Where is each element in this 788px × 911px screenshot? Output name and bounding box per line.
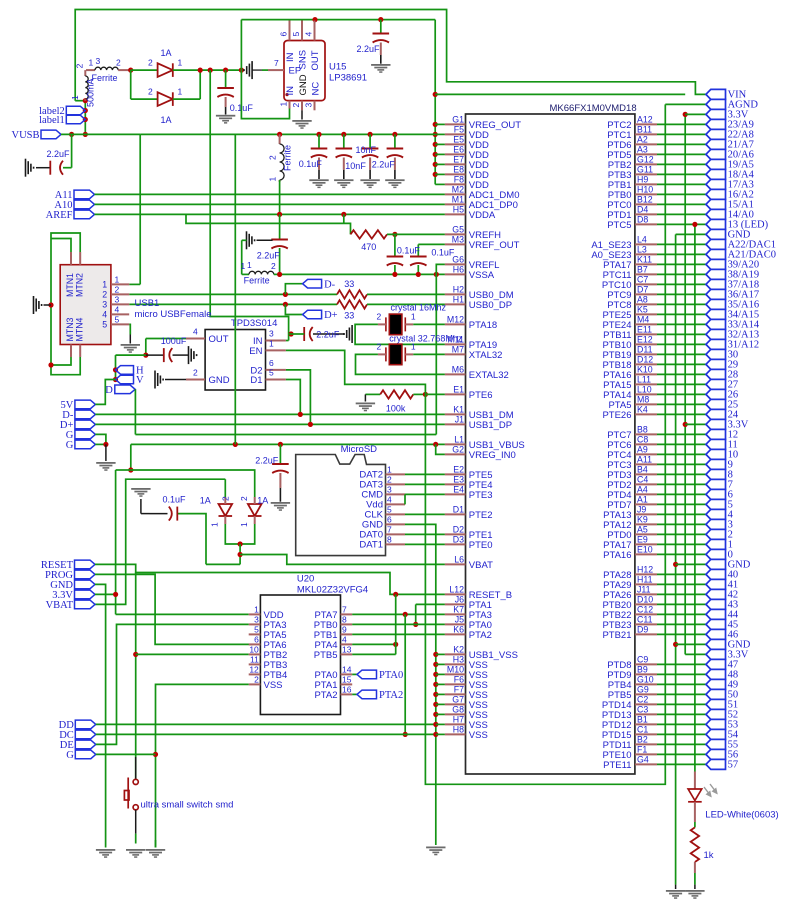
svg-text:U20: U20 xyxy=(297,574,314,585)
svg-text:B8: B8 xyxy=(637,425,648,435)
svg-text:OUT: OUT xyxy=(310,50,321,70)
svg-text:IN: IN xyxy=(285,52,296,62)
junction G flag tie xyxy=(153,752,158,757)
junction 3.3V pad xyxy=(113,592,118,597)
svg-text:G7: G7 xyxy=(452,695,464,705)
wire GND rail right xyxy=(675,234,677,884)
flag header 51 xyxy=(706,699,726,709)
pin H10 PTB0 of U1 xyxy=(635,193,657,195)
pin G8 VSS of U1 xyxy=(445,713,466,715)
junction D- tap xyxy=(283,292,288,297)
wire PTA17 to header xyxy=(657,263,706,265)
junction VUSB cap tap xyxy=(69,132,74,137)
junction USB1_DM xyxy=(298,412,303,417)
flag header 14/A0 xyxy=(706,209,726,219)
wire VUSB to VIN staircase xyxy=(75,10,706,101)
svg-text:H11: H11 xyxy=(637,575,653,585)
wire 100uF right lead xyxy=(173,354,189,356)
wire PTB1 to PTA2 xyxy=(352,633,445,635)
pin M10 VSS of U1 xyxy=(445,673,466,675)
svg-text:57: 57 xyxy=(728,760,739,771)
pin C8 PTC6 of U1 xyxy=(635,443,657,445)
svg-text:2: 2 xyxy=(268,155,278,160)
flag header 36/A17 xyxy=(706,289,726,299)
svg-text:1: 1 xyxy=(279,102,289,107)
wire PTE24 to header xyxy=(657,323,706,325)
svg-text:5: 5 xyxy=(269,368,274,378)
wire AREF jog xyxy=(186,214,351,234)
junction rail cap xyxy=(392,132,397,137)
flag header 57 xyxy=(706,759,726,769)
wire MTN1 loop xyxy=(51,239,71,253)
wire AGND loop xyxy=(425,104,665,784)
flag label1 xyxy=(66,115,85,124)
pin 2 VSS of U20 xyxy=(249,683,261,685)
ground 1 bottom left xyxy=(96,849,115,858)
ground below rail cap 4 xyxy=(385,179,404,188)
junction TPD IN feed xyxy=(208,68,213,73)
wire 100k gnd lead xyxy=(364,394,366,401)
wire PTD11 to header xyxy=(657,743,706,745)
capacitor C7 plates xyxy=(271,240,288,249)
pin K6 PTA2 of U1 xyxy=(445,633,466,635)
svg-text:33: 33 xyxy=(344,310,354,320)
pin E7 VDD of U1 xyxy=(445,163,466,165)
ground bars at C7 xyxy=(247,231,255,249)
wire bars drop xyxy=(242,239,247,241)
wire AGND trunk xyxy=(435,274,437,434)
wire PTC11 to header xyxy=(657,273,706,275)
svg-text:E1: E1 xyxy=(453,385,464,395)
flag header 55 xyxy=(706,739,726,749)
coil of ferrite FB3 xyxy=(249,271,274,274)
svg-text:A8: A8 xyxy=(637,295,648,305)
svg-text:K10: K10 xyxy=(637,365,653,375)
wire C5 drop xyxy=(394,234,396,256)
svg-text:USB1_DP: USB1_DP xyxy=(469,420,512,431)
pin 15 PTA1 of U20 xyxy=(341,683,353,685)
wire PTC3 to header xyxy=(657,463,706,465)
wire PTA16 to header xyxy=(657,553,706,555)
svg-text:1: 1 xyxy=(411,312,416,322)
ground below U15 xyxy=(292,120,311,129)
svg-text:J5: J5 xyxy=(455,615,464,625)
svg-text:G2: G2 xyxy=(452,445,464,455)
pin 1 DAT2 of MicroSD xyxy=(386,473,406,475)
junction VSS tap xyxy=(433,722,438,727)
wire DC to VSS xyxy=(96,733,436,735)
pin 1 of D3 xyxy=(224,516,226,524)
wire PTB11 to header xyxy=(657,333,706,335)
pin C9 PTD8 of U1 xyxy=(635,663,657,665)
pin 3 of USB1 xyxy=(111,303,129,305)
svg-text:2: 2 xyxy=(271,261,276,271)
svg-text:1: 1 xyxy=(241,261,246,271)
ground below C3 xyxy=(216,115,235,124)
flag header 12 xyxy=(706,429,726,439)
pin of rail cap 4 xyxy=(394,158,396,170)
svg-text:B7: B7 xyxy=(637,265,648,275)
wire PTD3 to header xyxy=(657,473,706,475)
svg-text:4: 4 xyxy=(303,32,313,37)
junction VDD E8 xyxy=(433,172,438,177)
svg-text:D3: D3 xyxy=(453,535,464,545)
wire U3 D1 to USB1_DM xyxy=(286,380,300,415)
pin C4 PTD2 of U1 xyxy=(635,483,657,485)
svg-text:C11: C11 xyxy=(637,615,653,625)
wire rail cap 1 gnd lead xyxy=(318,170,320,179)
flag header 0 xyxy=(706,549,726,559)
ground right rail xyxy=(666,890,685,899)
svg-text:AREF: AREF xyxy=(46,210,73,221)
pin H8 VSS of U1 xyxy=(445,733,466,735)
svg-text:100uF: 100uF xyxy=(161,336,187,346)
pin K9 PTA12 of U1 xyxy=(635,523,657,525)
junction VREFH right of 470 xyxy=(392,232,397,237)
svg-text:0.1uF: 0.1uF xyxy=(163,494,187,504)
svg-text:1: 1 xyxy=(178,86,183,96)
flag header 9 xyxy=(706,459,726,469)
pin 1 of ferrite L2 xyxy=(86,69,95,71)
junction VDD F5 xyxy=(433,132,438,137)
svg-text:1: 1 xyxy=(89,57,94,67)
pin J11 PTA26 of U1 xyxy=(635,593,657,595)
wire PTB20 to header xyxy=(657,603,706,605)
wire PTC7 to header xyxy=(657,433,706,435)
connector MicroSD body xyxy=(296,455,386,556)
svg-text:EN: EN xyxy=(249,346,262,357)
flag header 24 xyxy=(706,409,726,419)
svg-text:7: 7 xyxy=(387,525,392,535)
svg-text:A11: A11 xyxy=(637,455,652,465)
svg-text:PTC5: PTC5 xyxy=(607,220,631,231)
flag RESET xyxy=(75,560,96,569)
junction 0.1uF tap xyxy=(223,68,228,73)
svg-text:1A: 1A xyxy=(257,496,268,506)
svg-text:2.2uF: 2.2uF xyxy=(257,250,281,260)
wire rail cap 4 drop xyxy=(394,134,396,148)
junction V flag xyxy=(113,377,118,382)
svg-text:J11: J11 xyxy=(637,585,651,595)
pin of C3 xyxy=(225,97,227,107)
pin B7 PTC11 of U1 xyxy=(635,273,657,275)
wire DAT1 to PTE0 xyxy=(405,543,445,545)
wire PTD5 to header xyxy=(657,153,706,155)
wire E8 tap xyxy=(435,173,445,175)
svg-text:PTA0: PTA0 xyxy=(379,670,403,681)
pin F7 VSS of U1 xyxy=(445,693,466,695)
pin M2 ADC1_DM0 of U1 xyxy=(445,193,466,195)
flag header AGND xyxy=(706,99,726,109)
wire PTD2 to header xyxy=(657,483,706,485)
svg-text:10: 10 xyxy=(249,645,259,655)
pin D2 PTE1 of U1 xyxy=(445,533,466,535)
wire D3 anode drop xyxy=(224,479,226,497)
svg-text:A1: A1 xyxy=(637,495,648,505)
wire PTA2 flag link xyxy=(352,693,357,695)
flag header 42 xyxy=(706,589,726,599)
wire VSS tap xyxy=(436,663,445,665)
svg-text:33: 33 xyxy=(344,279,354,289)
wire C6 bottom xyxy=(417,265,419,274)
flag GND pad xyxy=(75,580,96,589)
svg-text:K5: K5 xyxy=(637,305,648,315)
svg-text:E4: E4 xyxy=(453,485,464,495)
svg-text:2: 2 xyxy=(377,342,382,352)
svg-text:J1: J1 xyxy=(455,415,464,425)
wire FB3 left xyxy=(242,273,249,275)
svg-text:E9: E9 xyxy=(637,535,648,545)
pin 1 of USB1 xyxy=(111,283,129,285)
flag header 44 xyxy=(706,609,726,619)
wire D3 cathode join xyxy=(225,524,240,544)
flag label2 xyxy=(66,106,85,115)
svg-text:C1: C1 xyxy=(637,725,648,735)
pin 7 PTA7 of U20 xyxy=(341,613,353,615)
svg-text:M10: M10 xyxy=(447,665,464,675)
svg-text:K4: K4 xyxy=(637,405,648,415)
wire AREF VDDA row xyxy=(95,213,445,215)
svg-text:VREF_OUT: VREF_OUT xyxy=(469,240,520,251)
flag header 35/A16 xyxy=(706,299,726,309)
wire GND flag link xyxy=(676,643,706,645)
wire AGND flag link xyxy=(665,103,706,105)
pin E10 PTA16 of U1 xyxy=(635,553,657,555)
svg-text:D1: D1 xyxy=(250,375,262,386)
flag header 6 xyxy=(706,489,726,499)
wire PTB1 to header xyxy=(657,183,706,185)
svg-text:H8: H8 xyxy=(453,725,464,735)
wire USB D- row xyxy=(129,293,337,295)
wire switch top lead xyxy=(135,757,137,779)
svg-text:6: 6 xyxy=(278,32,288,37)
junction PTB0 net xyxy=(413,622,418,627)
flag header GND xyxy=(706,639,726,649)
wire PTA28 to header xyxy=(657,573,706,575)
svg-text:PTA2: PTA2 xyxy=(469,630,492,641)
flag DD xyxy=(75,720,96,729)
svg-text:500mA: 500mA xyxy=(86,78,96,107)
svg-text:7: 7 xyxy=(274,58,279,68)
flag header 22/A8 xyxy=(706,129,726,139)
wire PTB0 to header xyxy=(657,193,706,195)
wire diode D1 anode xyxy=(131,69,158,71)
pin E2 PTE5 of U1 xyxy=(445,473,466,475)
svg-text:G5: G5 xyxy=(452,225,464,235)
pin J1 USB1_DP of U1 xyxy=(445,423,466,425)
wire PTA0 flag link xyxy=(352,673,357,675)
pin B1 PTD12 of U1 xyxy=(635,723,657,725)
svg-text:F5: F5 xyxy=(454,125,464,135)
svg-text:GND: GND xyxy=(298,74,309,95)
resistor R1 33 xyxy=(337,290,367,298)
svg-text:9: 9 xyxy=(342,625,347,635)
svg-text:micro USBFemale: micro USBFemale xyxy=(135,309,212,320)
wire GND flag link xyxy=(676,563,706,565)
junction PTE6 100k xyxy=(423,392,428,397)
wire DAT3 to PTE4 xyxy=(405,483,445,485)
wire VBAT to L6 xyxy=(240,555,445,565)
svg-text:B12: B12 xyxy=(637,195,653,205)
pin K5 PTE25 of U1 xyxy=(635,313,657,315)
wire D2 anode drop xyxy=(130,70,132,99)
pin G4 PTE11 of U1 xyxy=(635,763,657,765)
junction C10 tap xyxy=(278,442,283,447)
svg-text:F8: F8 xyxy=(454,175,464,185)
svg-text:label1: label1 xyxy=(39,115,65,126)
ground below USB1 pin5 xyxy=(121,344,140,353)
svg-text:PTE0: PTE0 xyxy=(469,540,493,551)
svg-text:M11: M11 xyxy=(448,335,465,345)
pin 5 PTA5 of U20 xyxy=(249,633,261,635)
svg-text:E7: E7 xyxy=(453,155,464,165)
junction VUSB a xyxy=(83,98,88,103)
svg-text:4: 4 xyxy=(387,495,392,505)
pin E1 PTE6 of U1 xyxy=(445,393,466,395)
svg-text:E11: E11 xyxy=(637,325,652,335)
diode D2 1A xyxy=(158,92,173,106)
pin L3 A0_SE23 of U1 xyxy=(635,253,657,255)
svg-text:2: 2 xyxy=(102,290,107,300)
junction GND rail a xyxy=(673,562,678,567)
wire GND pad net xyxy=(95,584,106,847)
flag header 1 xyxy=(706,539,726,549)
svg-text:K11: K11 xyxy=(637,255,652,265)
wire R2 to H1 xyxy=(367,303,445,305)
wire PTD0 to header xyxy=(657,533,706,535)
junction label1 tap xyxy=(83,117,88,122)
wire LED net drop xyxy=(694,224,696,771)
wire OUT row xyxy=(146,338,186,340)
svg-text:1: 1 xyxy=(102,280,107,290)
svg-text:IN: IN xyxy=(285,86,296,96)
junction 3.3V at VIN row xyxy=(433,92,438,97)
svg-text:B4: B4 xyxy=(637,465,648,475)
wire switch riser xyxy=(135,573,137,780)
wire C6 drop xyxy=(417,244,419,256)
wire 3.3V down from rail xyxy=(434,20,436,185)
flag header 11 xyxy=(706,439,726,449)
flag header 16/A2 xyxy=(706,189,726,199)
pin 4 OUT of U15 xyxy=(314,21,316,41)
svg-text:1: 1 xyxy=(210,522,220,527)
pin M7 XTAL32 of U1 xyxy=(445,353,466,355)
wire AGND to D flag xyxy=(135,434,436,436)
flag G switch xyxy=(75,750,96,759)
svg-text:VBAT: VBAT xyxy=(46,600,74,611)
flag header 48 xyxy=(706,669,726,679)
wire diode out to TPD IN xyxy=(210,70,288,340)
svg-text:D4: D4 xyxy=(637,205,648,215)
pin H1 USB0_DP of U1 xyxy=(445,303,466,305)
svg-text:PTE26: PTE26 xyxy=(602,410,631,421)
pin of rail cap 1 xyxy=(318,158,320,170)
svg-text:F7: F7 xyxy=(454,685,464,695)
svg-text:LP38691: LP38691 xyxy=(329,73,367,84)
pin D7 PTC9 of U1 xyxy=(635,293,657,295)
wire switch to gnd xyxy=(135,834,137,844)
wire PTD13 to header xyxy=(657,713,706,715)
svg-text:2: 2 xyxy=(148,57,153,67)
pin 5 CLK of MicroSD xyxy=(386,513,406,515)
wire PTA29 to header xyxy=(657,583,706,585)
junction RESET at U20 xyxy=(393,592,398,597)
pin 14 PTA0 of U20 xyxy=(341,673,353,675)
connector USB1 micro USBFemale body xyxy=(60,265,111,345)
junction 3.3V right top xyxy=(683,112,688,117)
pin F5 VDD of U1 xyxy=(445,133,466,135)
wire bars to H6 xyxy=(241,240,243,274)
wire D flag drop xyxy=(134,389,136,434)
svg-text:2: 2 xyxy=(239,496,249,501)
capacitor C4 plates xyxy=(373,34,390,43)
svg-text:E3: E3 xyxy=(453,475,464,485)
svg-text:MK66FX1M0VMD18: MK66FX1M0VMD18 xyxy=(550,103,637,114)
junction MTN gnd xyxy=(48,302,53,307)
pin H9 PTB1 of U1 xyxy=(635,183,657,185)
wire C7 drop xyxy=(279,214,281,239)
flag header 10 xyxy=(706,449,726,459)
wire 3.3V pad link xyxy=(95,593,116,595)
flag header 28 xyxy=(706,369,726,379)
ground below C4 xyxy=(371,64,390,73)
flag header 13 (LED) xyxy=(706,219,726,229)
wire HV drop xyxy=(115,355,117,379)
svg-text:1A: 1A xyxy=(161,48,172,58)
svg-text:2.2uF: 2.2uF xyxy=(357,44,381,54)
svg-text:PTA18: PTA18 xyxy=(469,320,497,331)
flag D- xyxy=(303,279,322,288)
svg-text:L3: L3 xyxy=(637,245,647,255)
wire VREFH tap link xyxy=(343,214,345,223)
wire 3.3V flag link xyxy=(685,653,706,655)
svg-text:470: 470 xyxy=(361,242,376,252)
wire C10 gnd lead xyxy=(279,488,281,502)
wire PTB22 to header xyxy=(657,613,706,615)
wire 100k left xyxy=(365,393,380,395)
junction PTA1 net low xyxy=(403,732,408,737)
wire VSS trunk tail xyxy=(435,840,437,845)
svg-text:MTN2: MTN2 xyxy=(75,273,85,297)
svg-text:XTAL32: XTAL32 xyxy=(469,350,503,361)
svg-text:PTE2: PTE2 xyxy=(469,510,493,521)
crystal Y2 32.768kHz xyxy=(386,344,405,365)
flag header 30 xyxy=(706,349,726,359)
wire GND rail gnd lead xyxy=(675,885,677,889)
ground bars MTN xyxy=(34,296,42,314)
wire A11 to ADC1_DM0 xyxy=(95,193,445,195)
wire C3 drop xyxy=(225,70,227,88)
pin of rail cap 3 xyxy=(369,158,371,170)
wire VUSB rail xyxy=(61,133,140,135)
pin D4 PTD1 of U1 xyxy=(635,213,657,215)
svg-text:5: 5 xyxy=(291,32,301,37)
pin of C10 xyxy=(279,473,281,488)
junction GND rail b xyxy=(673,642,678,647)
svg-text:K1: K1 xyxy=(453,405,464,415)
wire PROG net xyxy=(95,574,253,644)
wire 3.3V across top xyxy=(435,93,685,95)
flag D vbus xyxy=(115,385,135,394)
svg-text:PTE6: PTE6 xyxy=(469,390,493,401)
pin MTN3 stub xyxy=(70,345,72,358)
wire PTC8 to header xyxy=(657,303,706,305)
pin C1 PTD15 of U1 xyxy=(635,733,657,735)
pin 3 NC of U15 xyxy=(314,101,316,111)
wire CLK to PTE2 xyxy=(405,513,445,515)
svg-text:VSS: VSS xyxy=(264,680,283,691)
wire Y1 left to PTA19 xyxy=(355,324,445,344)
